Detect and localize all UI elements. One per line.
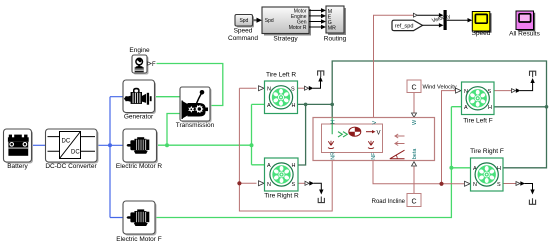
wire black velocity to mux <box>417 13 443 17</box>
svg-text:Electric Motor R: Electric Motor R <box>116 163 163 170</box>
vehicle body icon CG <box>349 127 361 136</box>
svg-text:H: H <box>292 103 296 109</box>
wire strategy to routing G <box>309 19 326 24</box>
svg-text:Routing: Routing <box>324 35 347 42</box>
wire dark green hub rear <box>298 61 547 168</box>
svg-text:Speed: Speed <box>234 28 253 35</box>
svg-text:V: V <box>372 121 378 125</box>
svg-text:NF: NF <box>371 152 377 160</box>
node dark green junction rear1 <box>304 103 308 107</box>
wire tire right R slip to terminator <box>298 181 324 195</box>
tire right R block <box>264 158 299 199</box>
vehicle body icon rear wheel <box>328 141 334 149</box>
svg-text:S: S <box>497 182 501 188</box>
wind velocity constant block <box>407 80 457 93</box>
speed command block <box>228 15 258 43</box>
terminator T4 <box>529 198 535 204</box>
wire red velocity V to mux <box>374 15 414 117</box>
road incline constant block <box>372 194 421 207</box>
svg-text:C: C <box>411 85 416 92</box>
wire green rear axle vertical <box>252 104 265 164</box>
wire green motor F to front axle <box>155 107 471 218</box>
vehicle body icon wind arrows <box>395 134 405 146</box>
svg-text:Engine: Engine <box>129 47 150 54</box>
terminator T1 <box>318 71 324 77</box>
vehicle body port labels top <box>330 119 418 125</box>
vehicle body icon H input <box>332 118 347 138</box>
engine block <box>129 47 156 75</box>
terminator T2 <box>318 197 324 203</box>
svg-text:Electric Motor F: Electric Motor F <box>116 236 162 243</box>
wire green branch to transmission lower port <box>167 114 180 146</box>
svg-text:S: S <box>292 182 296 188</box>
wire blue battery to dc-dc <box>32 144 46 146</box>
battery block <box>4 129 34 170</box>
wire dark green hub front <box>494 106 547 108</box>
speed scope block <box>472 12 492 38</box>
label velocity rotated <box>431 14 451 25</box>
tire left F block <box>462 82 495 125</box>
vehicle body port labels bottom <box>331 148 419 160</box>
wire green engine F to transmission <box>157 64 223 106</box>
svg-text:Road Incline: Road Incline <box>372 199 406 205</box>
vehicle body icon incline <box>390 150 405 159</box>
node green junction front axle <box>449 166 453 170</box>
arrow open into tire left R N <box>259 86 265 91</box>
svg-text:Tire Right F: Tire Right F <box>470 148 504 155</box>
svg-text:MR: MR <box>328 26 336 32</box>
svg-text:All Results: All Results <box>509 31 540 38</box>
electric motor R block <box>116 129 163 170</box>
node green junction rear axle <box>250 143 254 147</box>
svg-text:Transmission: Transmission <box>176 122 215 129</box>
mux block <box>444 10 447 30</box>
node red junction rear N <box>237 181 241 185</box>
all results scope block <box>509 11 540 38</box>
node blue junction <box>108 143 112 147</box>
tire left R block <box>265 72 298 114</box>
wire tire left F slip to terminator <box>494 78 535 93</box>
svg-text:A: A <box>464 105 468 111</box>
svg-text:NR: NR <box>331 152 337 160</box>
svg-text:H: H <box>292 163 296 169</box>
svg-text:DC: DC <box>71 150 80 156</box>
wire red NF normal force front <box>373 91 464 184</box>
wire green motor R output <box>157 144 252 146</box>
wire blue dc-dc to motors bus <box>97 97 124 218</box>
wire red NR normal force rear <box>239 88 332 211</box>
terminator T3 <box>530 71 536 77</box>
wire ref_spd to mux <box>423 23 444 27</box>
svg-text:Tire Left R: Tire Left R <box>266 72 296 79</box>
strategy block <box>262 7 311 42</box>
svg-text:Tire Right R: Tire Right R <box>264 192 299 199</box>
svg-text:N: N <box>267 182 271 188</box>
svg-text:A: A <box>267 103 271 109</box>
wire strategy to routing MR <box>309 25 326 30</box>
svg-text:DC: DC <box>62 139 71 145</box>
node dark green junction front <box>545 105 549 109</box>
svg-text:W: W <box>412 119 418 125</box>
svg-text:Command: Command <box>228 35 258 42</box>
ref_spd goto tag <box>392 20 423 30</box>
electric motor F block <box>116 201 162 243</box>
arrow open into tire right R N <box>259 181 265 186</box>
svg-text:beta: beta <box>412 148 418 160</box>
svg-text:Speed: Speed <box>472 30 491 37</box>
svg-text:A: A <box>267 163 271 169</box>
wire tire left R slip to terminator <box>298 77 323 91</box>
arrow open velocity converter <box>413 13 417 17</box>
node red junction front N <box>439 182 443 186</box>
vehicle body block <box>313 118 435 161</box>
arrow open into tire left F N <box>456 88 462 93</box>
wire strategy to routing M <box>309 8 326 13</box>
tire right F block <box>470 148 504 191</box>
svg-text:H: H <box>488 105 492 111</box>
svg-text:DC-DC Converter: DC-DC Converter <box>45 163 97 170</box>
svg-text:V: V <box>377 131 381 137</box>
svg-text:Strategy: Strategy <box>273 35 298 42</box>
wire tire right F slip to terminator <box>503 181 535 194</box>
svg-text:F: F <box>152 62 156 68</box>
svg-text:Spd: Spd <box>265 18 274 24</box>
svg-text:N: N <box>473 182 477 188</box>
dc-dc converter block <box>45 129 98 170</box>
node green junction transmission branch <box>165 143 169 147</box>
wire mux to speed scope <box>447 18 473 22</box>
node dark green junction rear2 <box>330 103 334 107</box>
generator block <box>123 80 156 120</box>
svg-text:Wind Velocity: Wind Velocity <box>423 84 457 90</box>
routing block <box>324 6 347 42</box>
svg-text:C: C <box>411 198 416 205</box>
wire green generator to transmission <box>155 96 181 98</box>
svg-text:Generator: Generator <box>124 113 154 120</box>
vehicle body icon V arrow <box>366 130 381 137</box>
wire red road incline to beta <box>412 162 417 194</box>
svg-text:H: H <box>330 120 336 124</box>
svg-text:Tire Left F: Tire Left F <box>463 118 492 125</box>
wire strategy to routing E <box>309 14 326 19</box>
transmission block <box>176 87 215 129</box>
svg-text:Motor R: Motor R <box>289 25 307 31</box>
wire red wind velocity to W <box>412 93 417 118</box>
svg-text:Spd: Spd <box>239 18 248 24</box>
svg-text:Battery: Battery <box>7 163 28 170</box>
svg-text:ref_spd: ref_spd <box>395 24 414 30</box>
wire speed command to strategy <box>253 18 263 23</box>
vehicle body icon front wheel <box>368 141 374 149</box>
arrow open into tire right F N <box>465 181 471 186</box>
